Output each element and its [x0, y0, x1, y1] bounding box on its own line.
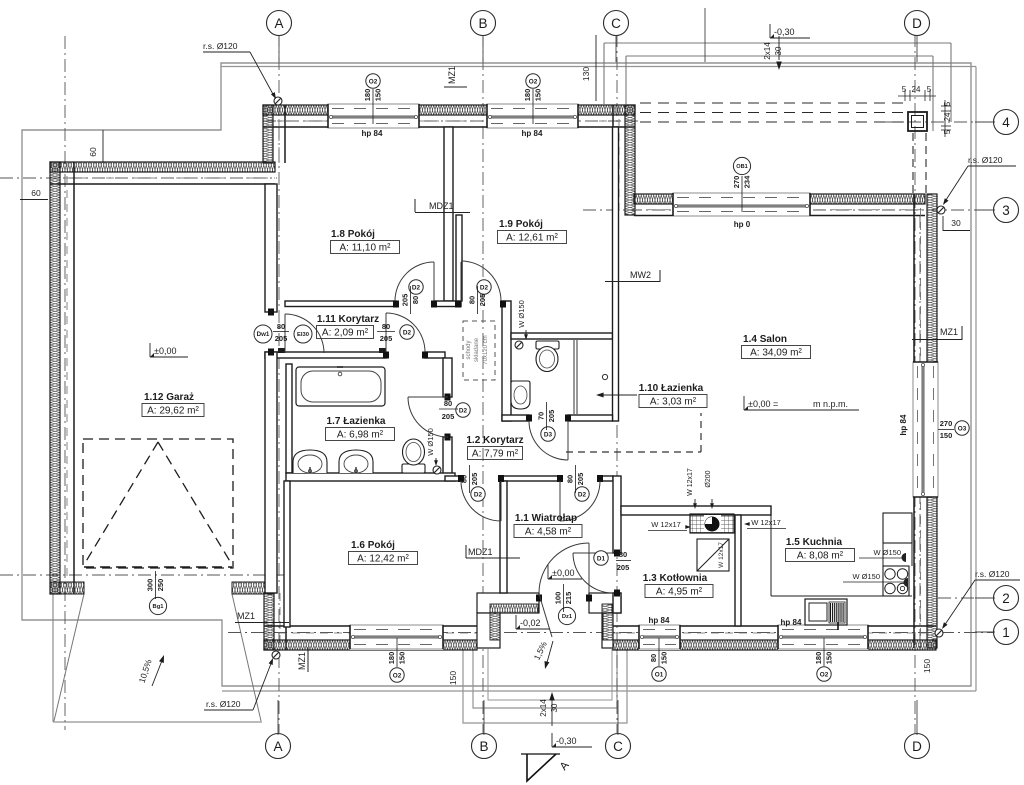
svg-text:MDZ1: MDZ1: [468, 547, 493, 557]
svg-text:1.4 Salon: 1.4 Salon: [743, 334, 787, 345]
svg-text:MZ1: MZ1: [297, 652, 307, 670]
svg-text:24: 24: [943, 112, 952, 121]
svg-text:205: 205: [617, 563, 630, 572]
svg-text:hp 84: hp 84: [649, 616, 670, 625]
svg-text:A: 29,62 m²: A: 29,62 m²: [147, 406, 199, 417]
svg-text:205: 205: [275, 334, 288, 343]
svg-text:1.11 Korytarz: 1.11 Korytarz: [317, 314, 379, 325]
svg-text:60: 60: [31, 188, 41, 198]
svg-text:A: A: [274, 16, 283, 31]
svg-text:D2: D2: [403, 329, 412, 336]
svg-text:Ø200: Ø200: [705, 470, 712, 487]
svg-text:5: 5: [927, 85, 932, 94]
svg-text:W 12x17: W 12x17: [718, 542, 725, 568]
svg-text:80: 80: [566, 475, 575, 483]
svg-text:1.1 Wiatrołap: 1.1 Wiatrołap: [515, 513, 577, 524]
svg-text:MDZ1: MDZ1: [429, 201, 454, 211]
svg-text:OB1: OB1: [736, 164, 748, 170]
svg-text:205: 205: [478, 294, 487, 307]
svg-text:C: C: [613, 739, 623, 754]
svg-text:180: 180: [387, 652, 396, 665]
svg-text:hp 84: hp 84: [899, 414, 908, 435]
svg-text:O2: O2: [393, 672, 402, 679]
svg-text:-0,30: -0,30: [556, 736, 577, 746]
svg-text:234: 234: [743, 175, 752, 188]
svg-text:A: 34,09 m²: A: 34,09 m²: [750, 348, 802, 359]
svg-text:150: 150: [534, 89, 543, 102]
svg-text:2x14: 2x14: [539, 699, 548, 717]
svg-text:1.10 Łazienka: 1.10 Łazienka: [639, 383, 704, 394]
svg-text:O2: O2: [820, 671, 829, 678]
svg-text:80: 80: [444, 399, 452, 408]
svg-text:215: 215: [564, 592, 573, 605]
svg-text:B: B: [479, 739, 488, 754]
svg-text:1.5 Kuchnia: 1.5 Kuchnia: [786, 537, 843, 548]
svg-text:składane: składane: [474, 337, 480, 362]
svg-text:80: 80: [649, 654, 658, 662]
svg-text:150: 150: [940, 431, 953, 440]
svg-text:W Ø150: W Ø150: [852, 572, 880, 581]
svg-text:30: 30: [774, 46, 783, 55]
svg-text:MZ1: MZ1: [940, 327, 958, 337]
svg-text:1: 1: [1002, 625, 1010, 640]
svg-text:205: 205: [401, 294, 410, 307]
svg-text:1.9 Pokój: 1.9 Pokój: [499, 219, 543, 230]
svg-text:100: 100: [554, 592, 563, 605]
svg-text:MW2: MW2: [630, 270, 651, 280]
svg-text:Dw1: Dw1: [257, 331, 270, 338]
svg-text:±0,00: ±0,00: [552, 568, 574, 578]
svg-text:O2: O2: [369, 78, 378, 85]
svg-text:205: 205: [547, 410, 556, 423]
svg-text:W Ø150: W Ø150: [426, 428, 435, 456]
svg-text:150: 150: [374, 89, 383, 102]
svg-text:1.8 Pokój: 1.8 Pokój: [331, 229, 375, 240]
svg-text:W 12x17: W 12x17: [651, 520, 681, 529]
svg-text:A: 2,09 m²: A: 2,09 m²: [322, 328, 369, 339]
svg-text:A: 7,79 m²: A: 7,79 m²: [472, 449, 519, 460]
svg-text:A: 12,42 m²: A: 12,42 m²: [357, 554, 409, 565]
svg-text:Dz1: Dz1: [562, 614, 573, 620]
svg-text:MZ1: MZ1: [447, 66, 457, 84]
svg-text:5: 5: [902, 85, 907, 94]
svg-text:EI30: EI30: [297, 332, 309, 338]
svg-text:5: 5: [943, 101, 952, 106]
svg-text:150: 150: [922, 659, 932, 673]
svg-text:205: 205: [576, 473, 585, 486]
svg-text:205: 205: [442, 412, 455, 421]
svg-text:300: 300: [146, 579, 155, 592]
svg-text:O1: O1: [655, 671, 664, 678]
svg-text:150: 150: [825, 652, 834, 665]
svg-text:2: 2: [1002, 591, 1010, 606]
svg-text:D1: D1: [597, 555, 606, 562]
svg-text:80: 80: [460, 475, 469, 483]
svg-text:D2: D2: [480, 284, 489, 291]
svg-text:r.s. Ø120: r.s. Ø120: [975, 569, 1010, 579]
svg-text:80: 80: [382, 322, 390, 331]
svg-text:A: A: [273, 739, 282, 754]
svg-text:D2: D2: [474, 491, 483, 498]
svg-text:O3: O3: [958, 425, 967, 432]
svg-text:1.7 Łazienka: 1.7 Łazienka: [327, 416, 386, 427]
svg-text:30: 30: [550, 703, 559, 712]
svg-text:W Ø150: W Ø150: [873, 548, 901, 557]
svg-text:130: 130: [581, 67, 591, 81]
svg-text:1.3 Kotłownia: 1.3 Kotłownia: [643, 573, 708, 584]
svg-text:hp 0: hp 0: [734, 220, 751, 229]
svg-text:D2: D2: [578, 491, 587, 498]
svg-text:60: 60: [88, 147, 98, 157]
svg-text:r.s. Ø120: r.s. Ø120: [203, 41, 238, 51]
svg-text:205: 205: [380, 334, 393, 343]
svg-text:180: 180: [814, 652, 823, 665]
svg-text:W 12x17: W 12x17: [687, 468, 694, 496]
svg-text:2x14: 2x14: [763, 42, 772, 60]
svg-text:W Ø150: W Ø150: [517, 300, 526, 328]
svg-text:70x120 cm: 70x120 cm: [483, 335, 489, 364]
svg-text:80: 80: [411, 296, 420, 304]
svg-text:-0,30: -0,30: [774, 27, 795, 37]
svg-text:1.6 Pokój: 1.6 Pokój: [351, 540, 395, 551]
svg-text:3: 3: [1002, 203, 1010, 218]
svg-text:m n.p.m.: m n.p.m.: [813, 399, 848, 409]
svg-text:1.2 Korytarz: 1.2 Korytarz: [466, 435, 523, 446]
svg-text:80: 80: [277, 322, 285, 331]
svg-text:150: 150: [448, 671, 458, 685]
svg-text:205: 205: [470, 473, 479, 486]
svg-text:hp 84: hp 84: [522, 129, 543, 138]
svg-text:B: B: [478, 16, 487, 31]
svg-text:Bg1: Bg1: [153, 604, 165, 610]
svg-text:hp 84: hp 84: [781, 618, 802, 627]
svg-text:±0,00: ±0,00: [154, 346, 176, 356]
svg-text:W 12x17: W 12x17: [751, 518, 781, 527]
svg-text:30: 30: [951, 218, 961, 228]
svg-text:C: C: [611, 16, 621, 31]
svg-text:A: 11,10 m²: A: 11,10 m²: [340, 243, 392, 254]
svg-text:D: D: [912, 739, 922, 754]
svg-text:D: D: [912, 16, 922, 31]
svg-text:270: 270: [940, 419, 953, 428]
svg-text:24: 24: [912, 85, 921, 94]
svg-text:A: 6,98 m²: A: 6,98 m²: [337, 430, 384, 441]
svg-text:MZ1: MZ1: [237, 611, 255, 621]
svg-text:180: 180: [363, 89, 372, 102]
svg-text:80: 80: [468, 296, 477, 304]
svg-text:D3: D3: [544, 431, 553, 438]
svg-text:D2: D2: [412, 284, 421, 291]
svg-text:A: 4,95 m²: A: 4,95 m²: [656, 587, 703, 598]
svg-text:150: 150: [398, 652, 407, 665]
svg-text:r.s. Ø120: r.s. Ø120: [968, 155, 1003, 165]
svg-text:4: 4: [1002, 115, 1010, 130]
svg-text:r.s. Ø120: r.s. Ø120: [206, 699, 241, 709]
svg-text:70: 70: [537, 412, 546, 420]
svg-text:hp 84: hp 84: [362, 129, 383, 138]
svg-text:80: 80: [619, 550, 627, 559]
svg-text:A: 4,58 m²: A: 4,58 m²: [525, 527, 572, 538]
svg-text:150: 150: [660, 652, 669, 665]
svg-text:A: 3,03 m²: A: 3,03 m²: [650, 397, 697, 408]
svg-text:-0,02: -0,02: [520, 618, 541, 628]
svg-text:O2: O2: [529, 78, 538, 85]
svg-text:250: 250: [156, 579, 165, 592]
svg-text:180: 180: [523, 89, 532, 102]
svg-text:A: 12,61 m²: A: 12,61 m²: [506, 233, 558, 244]
svg-text:270: 270: [732, 176, 741, 189]
svg-text:schody: schody: [466, 340, 472, 359]
svg-text:D2: D2: [459, 407, 468, 414]
svg-text:1.12 Garaż: 1.12 Garaż: [144, 392, 194, 403]
svg-text:±0,00 =: ±0,00 =: [748, 399, 778, 409]
svg-text:A: 8,08 m²: A: 8,08 m²: [797, 551, 844, 562]
